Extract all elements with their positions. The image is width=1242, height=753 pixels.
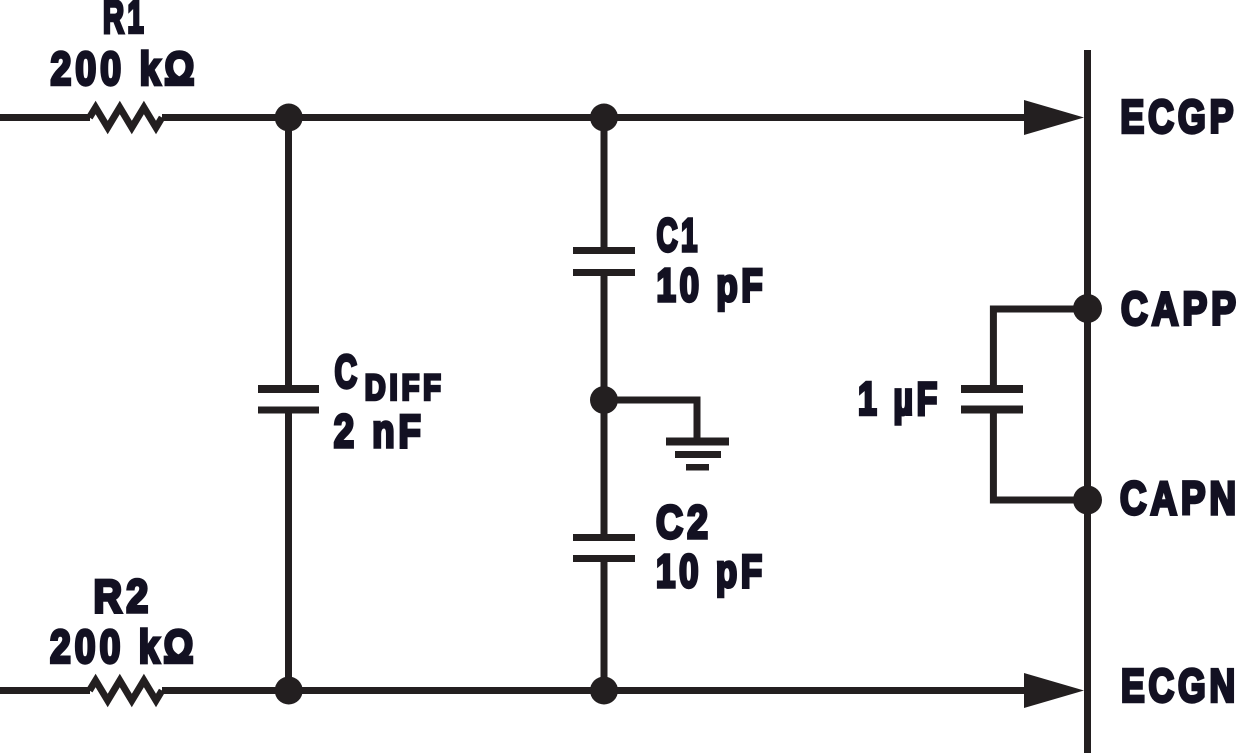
svg-text:ECGN: ECGN <box>1121 660 1239 712</box>
node CAPP <box>1073 294 1102 323</box>
wire bottom main segment <box>162 687 1062 694</box>
svg-text:ECGP: ECGP <box>1120 90 1237 142</box>
svg-text:10 pF: 10 pF <box>656 545 766 597</box>
node junction top-middle <box>590 104 618 132</box>
wire vertical top (C1 branch) <box>601 118 608 248</box>
node CAPN <box>1073 486 1102 515</box>
wire CAPP stub <box>993 309 1087 385</box>
resistor R2 <box>90 681 163 701</box>
node junction top-left <box>275 104 303 132</box>
svg-text:C1: C1 <box>657 209 701 261</box>
arrowhead into ECGN <box>1024 673 1084 708</box>
wire bottom-left segment <box>0 687 90 694</box>
svg-text:CDIFF: CDIFF <box>335 345 445 407</box>
svg-text:R2: R2 <box>94 570 153 622</box>
wire top-left segment <box>0 114 90 121</box>
capacitor C1 <box>573 247 635 276</box>
svg-text:2 nF: 2 nF <box>334 405 425 457</box>
svg-text:CAPP: CAPP <box>1121 283 1240 335</box>
arrowhead into ECGP <box>1024 100 1084 135</box>
wire to ground <box>604 400 697 441</box>
wire vertical bottom (C2 branch) <box>601 562 608 691</box>
IC boundary line <box>1084 50 1091 753</box>
node junction center <box>590 386 618 414</box>
ground <box>666 438 729 471</box>
capacitor 1uF <box>961 385 1023 414</box>
svg-text:R1: R1 <box>103 0 147 43</box>
svg-text:C2: C2 <box>656 496 712 548</box>
svg-text:1 µF: 1 µF <box>858 373 941 425</box>
capacitor CDIFF <box>258 385 319 414</box>
wire CAPN stub <box>993 414 1087 501</box>
svg-text:10 pF: 10 pF <box>657 259 767 311</box>
node junction bottom-middle <box>590 677 618 705</box>
wire vertical upper (CDIFF branch) <box>285 118 292 386</box>
svg-text:200 kΩ: 200 kΩ <box>50 620 198 672</box>
capacitor C2 <box>573 534 635 562</box>
svg-text:200 kΩ: 200 kΩ <box>51 42 199 94</box>
wire top main segment <box>162 114 1062 121</box>
resistor R1 <box>90 108 163 128</box>
svg-text:CAPN: CAPN <box>1120 472 1240 524</box>
node junction bottom-left <box>275 677 303 705</box>
wire vertical lower (CDIFF branch) <box>285 414 292 691</box>
wire vertical middle (C1 to C2) <box>601 276 608 534</box>
